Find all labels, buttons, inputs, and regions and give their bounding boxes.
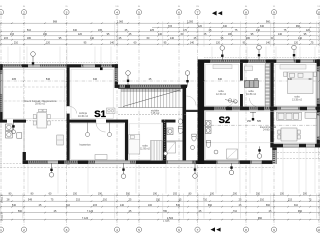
svg-text:140: 140 xyxy=(190,41,195,44)
svg-text:150: 150 xyxy=(280,193,285,196)
svg-text:140: 140 xyxy=(278,33,283,36)
svg-text:11.95 m2: 11.95 m2 xyxy=(140,147,150,150)
middle bath fixtures xyxy=(164,119,197,155)
svg-text:10.35 m2: 10.35 m2 xyxy=(246,93,257,96)
closet S1 hall xyxy=(57,135,64,145)
wall S1 interior vertical x67 xyxy=(67,67,70,164)
svg-text:140: 140 xyxy=(90,37,95,40)
wall middle corridor y110 xyxy=(186,110,198,112)
top dimension line partial xyxy=(152,27,319,29)
grid bubble top 6 xyxy=(176,6,181,15)
grid bubble top 9 xyxy=(271,6,276,15)
svg-text:7: 7 xyxy=(197,10,199,14)
svg-text:540: 540 xyxy=(12,204,17,207)
roof overhang dash S2 xyxy=(204,57,320,59)
door arc bedroom A door xyxy=(226,99,234,107)
washer column S1 xyxy=(6,124,22,138)
grid axis line 1 xyxy=(0,16,2,227)
room finish bedroom C S2 xyxy=(275,64,316,105)
bottom dimension line 3 xyxy=(0,206,320,208)
svg-text:120: 120 xyxy=(198,25,203,28)
svg-text:180: 180 xyxy=(43,33,48,36)
grid bubble top 5 xyxy=(136,6,141,15)
grid bubble top 3 xyxy=(64,6,69,15)
bottom dimension line 5 xyxy=(0,219,320,221)
svg-text:100: 100 xyxy=(148,204,153,207)
svg-text:590: 590 xyxy=(18,210,23,213)
svg-text:968: 968 xyxy=(53,20,58,23)
grid axis line 7 xyxy=(197,16,199,227)
grid bubble top 1 xyxy=(0,6,4,15)
top dim text row 1 xyxy=(53,20,271,23)
door arc S1 kitchen xyxy=(70,107,77,114)
section marker top 1 xyxy=(31,52,36,67)
wall stair right vertical xyxy=(183,85,187,161)
room finish bath S1 xyxy=(71,124,124,160)
kitchen counter S2 xyxy=(277,112,317,120)
roof overhang dash S1 xyxy=(0,62,118,64)
top dimension ticks xyxy=(0,22,320,45)
wall S1 terrace stub xyxy=(23,123,26,164)
svg-text:215: 215 xyxy=(93,204,98,207)
S2 bath fixtures xyxy=(206,121,238,160)
svg-text:1: 1 xyxy=(0,10,2,14)
section marker top 6 xyxy=(292,45,297,61)
svg-text:215: 215 xyxy=(76,198,81,201)
grid axis line 6 xyxy=(178,16,180,227)
bottom dim text row 4 xyxy=(18,210,303,213)
horizontal grid dash line y81 xyxy=(0,80,320,82)
svg-text:8: 8 xyxy=(245,228,247,232)
svg-text:140: 140 xyxy=(170,37,175,40)
bed S1 xyxy=(129,135,140,155)
marker mid S2 xyxy=(250,112,256,121)
svg-text:340: 340 xyxy=(218,78,223,81)
svg-text:710: 710 xyxy=(203,198,208,201)
wall S2 bottom band xyxy=(273,144,320,148)
svg-text:540: 540 xyxy=(176,204,181,207)
grid axis line 9 xyxy=(273,16,275,227)
svg-text:120: 120 xyxy=(46,41,51,44)
svg-text:2: 2 xyxy=(23,228,25,232)
horizontal grid dash line y125 xyxy=(204,124,320,126)
grid bubble bottom 2 xyxy=(21,227,26,232)
grid axis line 4 xyxy=(116,16,118,227)
horizontal dash line y101 left xyxy=(0,100,70,102)
bottom dim text row 3 xyxy=(12,204,299,207)
svg-text:6: 6 xyxy=(178,10,180,14)
grid axis line 8 xyxy=(245,16,247,227)
bottom dimension line 2 xyxy=(0,200,320,202)
zone dash line hall y120 xyxy=(26,120,67,122)
staircase xyxy=(118,88,182,108)
grid bubble bottom 10 xyxy=(316,227,320,232)
terrace left dashes xyxy=(0,123,23,168)
wall middle bath top y120 xyxy=(162,120,184,123)
wardrobe bedroom A xyxy=(213,65,232,69)
section marker bottom 4 xyxy=(229,163,234,175)
svg-text:2: 2 xyxy=(23,10,25,14)
svg-text:7.25 m2: 7.25 m2 xyxy=(151,112,160,115)
svg-text:P=82.5: P=82.5 xyxy=(0,212,4,221)
svg-text:780: 780 xyxy=(163,210,168,213)
svg-text:500: 500 xyxy=(126,193,131,196)
wardrobe bedroom C xyxy=(280,65,306,69)
top dimension line 2 xyxy=(0,31,319,33)
bottom dimension ticks xyxy=(0,195,320,221)
svg-text:13.35 m2: 13.35 m2 xyxy=(292,98,303,101)
wall S2 party wall x198 xyxy=(198,59,205,164)
grid bubble top 4 xyxy=(114,6,119,15)
svg-text:10.30 m2: 10.30 m2 xyxy=(78,115,89,118)
svg-text:346: 346 xyxy=(93,78,98,81)
wall S1 bedroom vertical x125 xyxy=(125,120,128,161)
grid axis line 3 xyxy=(66,16,68,227)
grid bubble top 8 xyxy=(243,6,248,15)
svg-text:9: 9 xyxy=(273,228,275,232)
bottom extension lines xyxy=(1,194,320,219)
svg-text:310: 310 xyxy=(294,204,299,207)
dining table S1 xyxy=(33,109,50,128)
bed bedroom C xyxy=(284,72,317,94)
top dim text row 2 xyxy=(168,25,301,28)
svg-text:405: 405 xyxy=(12,78,17,81)
text bedroom S1 xyxy=(140,145,150,151)
top dim text row 3 xyxy=(27,29,311,32)
svg-text:215: 215 xyxy=(4,37,9,40)
svg-text:6: 6 xyxy=(178,228,180,232)
svg-text:549: 549 xyxy=(28,198,33,201)
top dimension line 5 xyxy=(0,43,319,45)
wall S1 step vertical xyxy=(115,64,118,88)
wall porch band xyxy=(115,85,187,88)
svg-text:200: 200 xyxy=(256,193,261,196)
wall S2 right band xyxy=(317,59,320,147)
svg-text:2.050: 2.050 xyxy=(187,20,194,23)
top dim text row 6 xyxy=(14,41,314,44)
svg-text:250: 250 xyxy=(247,120,252,123)
svg-text:510: 510 xyxy=(27,29,32,32)
section marker top 2 xyxy=(126,71,131,87)
grid bubble bottom 6 xyxy=(176,227,181,232)
svg-text:215: 215 xyxy=(288,198,293,201)
section arrow pair top xyxy=(212,11,222,16)
svg-text:190: 190 xyxy=(98,193,103,196)
svg-text:195: 195 xyxy=(98,29,103,32)
svg-text:7: 7 xyxy=(197,228,199,232)
svg-text:960: 960 xyxy=(298,210,303,213)
ventilation shaft hatch xyxy=(265,64,269,109)
wall S2 below-stair hatch xyxy=(272,147,276,164)
svg-text:S1: S1 xyxy=(94,109,106,120)
bottom dimension line 4 xyxy=(0,212,320,214)
svg-text:12.15 m2: 12.15 m2 xyxy=(216,93,227,96)
top dimension line 1 xyxy=(0,22,319,24)
terrace dashed line y167 xyxy=(0,166,273,168)
svg-text:340: 340 xyxy=(260,25,265,28)
bottom dimension line 1 xyxy=(0,195,320,197)
svg-text:960: 960 xyxy=(266,20,271,23)
svg-text:120: 120 xyxy=(78,33,83,36)
text bedroom C xyxy=(292,96,303,102)
svg-text:3: 3 xyxy=(66,228,68,232)
wall S1 corridor y120 xyxy=(0,120,128,123)
text living S1 xyxy=(24,100,57,106)
svg-text:715: 715 xyxy=(168,25,173,28)
svg-text:1: 1 xyxy=(0,228,2,232)
grid axis line 10 xyxy=(318,16,320,227)
svg-text:340: 340 xyxy=(73,29,78,32)
svg-text:4: 4 xyxy=(116,10,118,14)
desk bedroom B xyxy=(245,66,253,71)
svg-text:190: 190 xyxy=(153,193,158,196)
svg-text:192: 192 xyxy=(173,193,178,196)
svg-text:8: 8 xyxy=(245,10,247,14)
grid bubble bottom 3 xyxy=(64,227,69,232)
svg-text:140: 140 xyxy=(120,204,125,207)
room finish bedroom A S2 xyxy=(206,64,239,105)
text kitchen S1 xyxy=(78,112,89,118)
svg-text:310: 310 xyxy=(103,198,108,201)
section marker bottom 3 xyxy=(193,163,198,178)
svg-text:240: 240 xyxy=(256,29,261,32)
text bedroom B xyxy=(246,90,257,96)
svg-text:215: 215 xyxy=(10,33,15,36)
svg-text:140: 140 xyxy=(266,41,271,44)
svg-text:180: 180 xyxy=(246,37,251,40)
dining table S2 xyxy=(278,128,300,141)
top extension lines xyxy=(1,22,320,47)
wall S1 left band xyxy=(0,64,3,122)
room finish bedroom S1 xyxy=(129,124,162,160)
svg-text:200: 200 xyxy=(303,193,308,196)
room finish bedroom B S2 xyxy=(244,64,264,105)
interior dim text y81 xyxy=(12,78,312,81)
grid bubble bottom 9 xyxy=(271,227,276,232)
svg-text:150: 150 xyxy=(73,193,78,196)
wall S2 interior vertical x270 xyxy=(270,63,273,148)
wall S2 middle band y108 xyxy=(204,107,320,111)
door arc bedroom B door xyxy=(250,98,259,107)
svg-text:120: 120 xyxy=(306,29,311,32)
door arc S1 hall xyxy=(96,123,106,132)
marker small x13 xyxy=(12,123,16,134)
text living S2 xyxy=(260,126,277,132)
svg-text:340: 340 xyxy=(288,78,293,81)
svg-text:120: 120 xyxy=(294,41,299,44)
wall bottom band S1-middle xyxy=(23,160,273,164)
section marker top 5 xyxy=(257,45,262,61)
svg-text:960: 960 xyxy=(296,25,301,28)
svg-text:24.60 m2: 24.60 m2 xyxy=(263,129,274,132)
svg-text:kupaonica: kupaonica xyxy=(80,144,92,147)
grid bubble bottom 1 xyxy=(0,227,4,232)
wardrobe S1 bedroom xyxy=(151,141,163,161)
top dim text row 5 xyxy=(4,37,303,40)
grid bubble bottom 7 xyxy=(195,227,200,232)
svg-text:225: 225 xyxy=(150,29,155,32)
svg-text:7.120: 7.120 xyxy=(82,217,89,220)
svg-text:28.60 m2: 28.60 m2 xyxy=(35,103,46,106)
svg-text:295: 295 xyxy=(254,78,259,81)
column kitchen S1 xyxy=(100,68,103,71)
room finish kitchen S1 xyxy=(71,69,113,118)
svg-text:200: 200 xyxy=(233,193,238,196)
svg-text:660: 660 xyxy=(266,204,271,207)
top dimension line 4 xyxy=(0,39,319,41)
grid bubble top 7 xyxy=(195,6,200,15)
svg-text:210: 210 xyxy=(14,41,19,44)
grid bubble top 2 xyxy=(21,6,26,15)
svg-text:546: 546 xyxy=(46,78,51,81)
svg-text:5: 5 xyxy=(138,10,140,14)
svg-text:140: 140 xyxy=(110,41,115,44)
kitchen sink unit S1 xyxy=(107,108,116,114)
stair text xyxy=(151,110,160,116)
grid bubble bottom 4 xyxy=(114,227,119,232)
zone dash line living x23 xyxy=(23,68,25,120)
top dim text row 4 xyxy=(10,33,307,36)
wall S1 top band xyxy=(0,64,118,67)
text dim mid S2 xyxy=(247,120,262,123)
section marker top 4 xyxy=(220,46,225,62)
window extension lines top xyxy=(8,47,315,65)
svg-text:4: 4 xyxy=(116,228,118,232)
top dimension line 3 xyxy=(0,35,319,37)
wall S2 bedroom vertical x240 xyxy=(240,63,243,109)
svg-text:140: 140 xyxy=(298,37,303,40)
zone dash line living y87 xyxy=(0,86,67,88)
terrace right dashes xyxy=(277,147,320,160)
svg-text:310: 310 xyxy=(66,204,71,207)
bottom dim text row 1 xyxy=(9,193,308,196)
middle bath divider xyxy=(163,140,183,142)
grid axis line 5 xyxy=(138,16,140,227)
room finish living S1 xyxy=(4,69,65,119)
grid axis line 2 xyxy=(23,16,25,227)
svg-text:S2: S2 xyxy=(219,115,231,126)
svg-text:3: 3 xyxy=(66,10,68,14)
grid bubble bottom 8 xyxy=(243,227,248,232)
svg-text:9: 9 xyxy=(273,10,275,14)
room finish hall S2 xyxy=(206,111,239,159)
wardrobe bedroom B xyxy=(245,81,259,88)
svg-text:120: 120 xyxy=(216,41,221,44)
section marker bottom 2 xyxy=(121,163,126,179)
window extension lines bottom xyxy=(28,148,315,194)
svg-text:310: 310 xyxy=(260,198,265,201)
svg-text:180: 180 xyxy=(228,33,233,36)
svg-text:960: 960 xyxy=(258,217,263,220)
svg-text:P=82.5: P=82.5 xyxy=(0,194,4,203)
svg-text:7.120: 7.120 xyxy=(87,210,94,213)
svg-text:710: 710 xyxy=(233,210,238,213)
grid bubble bottom 5 xyxy=(136,227,141,232)
door arc S2 entry xyxy=(187,96,197,106)
svg-text:150: 150 xyxy=(156,198,161,201)
bottom dim text row 2 xyxy=(7,198,312,201)
section marker bottom 1 xyxy=(49,163,54,177)
svg-text:660: 660 xyxy=(208,204,213,207)
wall S2 top band xyxy=(204,59,320,63)
svg-text:340: 340 xyxy=(223,25,228,28)
rack symbol bedroom A xyxy=(225,99,237,104)
section marker bottom 5 xyxy=(257,146,262,158)
text bedroom A xyxy=(216,90,227,96)
bottom dim text row 5 xyxy=(82,217,263,220)
section marker top 3 xyxy=(185,71,190,87)
svg-text:5: 5 xyxy=(138,228,140,232)
svg-text:140: 140 xyxy=(158,33,163,36)
svg-text:585: 585 xyxy=(257,120,262,123)
room finish living S2 xyxy=(206,111,316,142)
section arrow pair bottom xyxy=(211,227,221,231)
interior dim ticks y81 xyxy=(0,80,320,82)
svg-text:100: 100 xyxy=(210,193,215,196)
bath fixtures S1 xyxy=(85,123,111,160)
grid bubble top 10 xyxy=(316,6,320,15)
svg-text:1 605: 1 605 xyxy=(163,219,170,223)
svg-text:180: 180 xyxy=(27,37,32,40)
stair landing dash xyxy=(118,114,186,116)
wall middle party vertical x163 xyxy=(163,120,167,161)
